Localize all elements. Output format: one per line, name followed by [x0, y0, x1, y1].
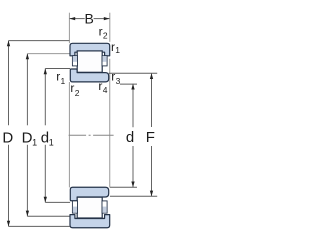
leader D1 bottom	[27, 215, 70, 217]
svg-text:2: 2	[75, 88, 80, 98]
B extension line right	[109, 13, 111, 42]
leader d1 bottom	[45, 201, 70, 203]
bearing bottom section (mirrored)	[70, 187, 110, 228]
cage bottom-left	[72, 201, 77, 213]
arrow D1 bottom	[26, 211, 29, 217]
dimension B line	[70, 18, 110, 20]
bearing top section	[70, 43, 110, 82]
leader d1 top	[45, 68, 70, 70]
svg-text:D: D	[2, 129, 13, 146]
grey side-face line left	[68, 82, 70, 187]
arrow F bottom	[150, 191, 153, 197]
svg-text:2: 2	[103, 31, 108, 41]
svg-text:4: 4	[103, 85, 108, 95]
svg-text:B: B	[85, 11, 94, 27]
dimension d1 line	[44, 69, 46, 203]
arrow D1 top	[26, 54, 29, 60]
cage top-right	[102, 56, 107, 66]
svg-text:D: D	[22, 129, 33, 146]
dimension D1 line	[26, 54, 28, 217]
leader D bottom	[9, 225, 70, 227]
arrow d1 bottom	[44, 197, 47, 203]
cage top-left	[72, 56, 77, 66]
roller bottom section	[77, 197, 102, 218]
grey side-face line right	[109, 59, 111, 188]
svg-text:1: 1	[61, 76, 66, 86]
svg-text:1: 1	[115, 45, 120, 55]
dimension d line	[132, 84, 134, 187]
svg-text:F: F	[146, 129, 155, 146]
B extension line left	[68, 13, 70, 44]
leader d bottom	[110, 186, 137, 188]
arrow d1 top	[44, 69, 47, 75]
svg-text:3: 3	[116, 76, 121, 86]
centerline	[69, 134, 114, 136]
leader D1 top	[27, 53, 70, 55]
leader d top	[120, 83, 137, 85]
svg-text:d: d	[126, 129, 134, 146]
arrow F top	[150, 73, 153, 79]
roller top section	[77, 51, 102, 72]
dimension F line	[151, 73, 153, 196]
svg-text:1: 1	[49, 137, 54, 147]
arrow B left	[70, 17, 76, 20]
arrow d bottom	[131, 182, 134, 188]
leader D top	[9, 40, 70, 42]
arrow d top	[131, 84, 134, 90]
leader F top	[109, 72, 157, 74]
svg-text:1: 1	[32, 137, 37, 147]
dimension D line	[8, 41, 10, 227]
arrow B right	[104, 17, 110, 20]
cage bottom-right	[102, 201, 107, 213]
arrow D top	[7, 41, 10, 47]
leader F bottom	[110, 195, 157, 197]
arrow D bottom	[7, 221, 10, 227]
